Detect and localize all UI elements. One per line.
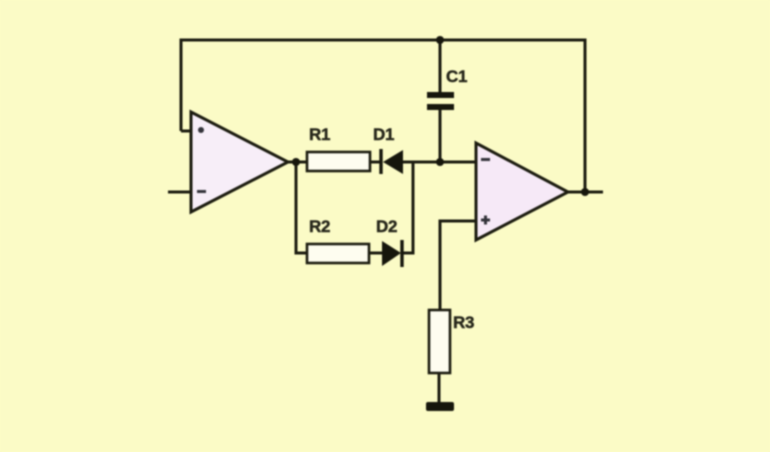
svg-text:C1: C1 xyxy=(446,67,467,86)
svg-text:R2: R2 xyxy=(309,217,330,236)
svg-text:D1: D1 xyxy=(373,125,394,144)
svg-text:R1: R1 xyxy=(309,125,330,144)
svg-text:R3: R3 xyxy=(453,313,474,332)
svg-text:D2: D2 xyxy=(376,217,397,236)
